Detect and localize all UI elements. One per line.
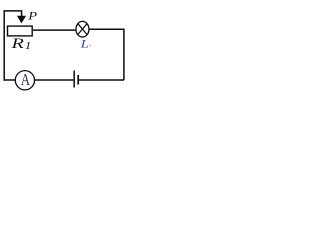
svg-text:P: P [27,9,37,23]
svg-text:L: L [79,37,88,50]
svg-text:A: A [21,72,30,90]
svg-text:R: R [10,35,24,52]
svg-text:1: 1 [25,39,32,52]
